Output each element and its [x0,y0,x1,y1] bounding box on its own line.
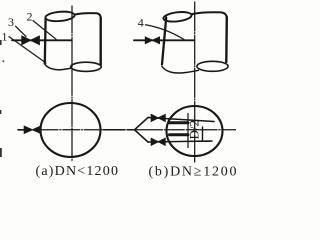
well wall left edge (left elevation) [44,19,47,64]
main line into plan (b) [103,129,135,131]
centerline right elevation+plan axis [194,2,196,162]
centerline left elevation+plan axis [71,6,73,162]
scan specks [0,40,4,157]
plan circle (b) [167,106,223,156]
bottom front rim arc (left elevation) [45,64,72,70]
well wall left edge (right elevation) [162,18,166,65]
pipe into plan (a) [18,129,24,131]
bottom front rim arc (right elevation) [162,67,199,74]
leader 2 [33,21,56,40]
svg-text:(b)DN≥1200: (b)DN≥1200 [149,165,237,180]
svg-text:3: 3 [8,15,14,29]
plan circle (a) [41,103,101,157]
well wall right edge (right elevation) [225,17,228,62]
upper bypass branch (b) [148,118,214,122]
top edge (left elevation) [75,13,101,19]
fork upper diagonal (b) [135,118,149,130]
svg-text:4: 4 [138,16,144,30]
fork lower diagonal (b) [135,130,149,142]
dimension L mark (b) [197,127,210,141]
valve bowtie (right elevation) [145,37,159,44]
svg-text:D/2: D/2 [187,120,202,140]
horizontal centerline plan (b) [135,129,237,131]
top edge (right elevation) [191,12,227,18]
pipe (left elevation) [12,39,72,41]
lower bypass branch (b) [148,141,212,142]
bottom ellipse (right elevation) [197,61,228,71]
upper bypass valve bowtie (b) [151,114,165,121]
bottom ellipse (left elevation) [71,62,102,71]
leader 1 [9,37,46,63]
top ellipse (right elevation) [163,11,192,23]
top ellipse (left elevation) [45,11,75,23]
gate valve body top band (b) [170,121,189,124]
svg-text:2: 2 [27,9,33,23]
leader 3 [16,26,27,36]
dimension extension line (b) [187,114,189,148]
leader 4 [146,25,185,40]
pipe (right elevation) [134,39,194,41]
lower bypass valve bowtie (b) [151,138,165,145]
svg-text:(a)DN<1200: (a)DN<1200 [36,164,120,179]
valve bowtie plan (a) [24,126,40,133]
gate valve body bottom band (b) [170,133,189,136]
well wall right edge (left elevation) [99,18,101,65]
horizontal centerline plan (a) [41,129,116,131]
valve bowtie (left elevation) [22,36,40,45]
svg-text:1: 1 [2,29,8,43]
